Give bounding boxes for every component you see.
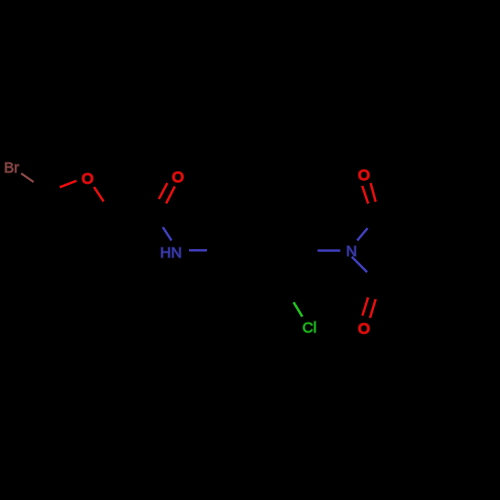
svg-text:O: O (82, 171, 94, 188)
bond N-C3 phthalimide (N half) (352, 257, 367, 272)
bond C4aryl-N (N half) (318, 249, 341, 251)
amide C=O double bond line 2 (O half) (166, 186, 175, 203)
amide C=O double bond line 1 (O half) (159, 183, 167, 199)
svg-text:HN: HN (160, 244, 182, 261)
bond N-C1aryl (N half) (189, 249, 207, 251)
svg-text:Cl: Cl (302, 320, 316, 337)
bond C(=O)-N (N half) (163, 227, 172, 240)
bond Br-C5 (Br half) (21, 173, 33, 182)
svg-text:Br: Br (4, 159, 19, 176)
bond N-C1 phthalimide (N half) (357, 228, 367, 240)
bond O1-C2 (O half) (94, 187, 104, 201)
lower C3=O double bond line 2 (O half) (370, 299, 376, 318)
upper C1=O double bond line 2 (O half) (371, 183, 376, 202)
upper C1=O double bond line 1 (O half) (362, 186, 368, 204)
bond C5-O1 (O half) (60, 181, 77, 188)
svg-text:O: O (358, 320, 370, 337)
svg-text:O: O (358, 167, 370, 184)
lower C3=O double bond line 1 (O half) (362, 297, 368, 315)
svg-text:O: O (172, 169, 184, 186)
bond C3aryl-Cl (Cl half) (294, 302, 303, 316)
